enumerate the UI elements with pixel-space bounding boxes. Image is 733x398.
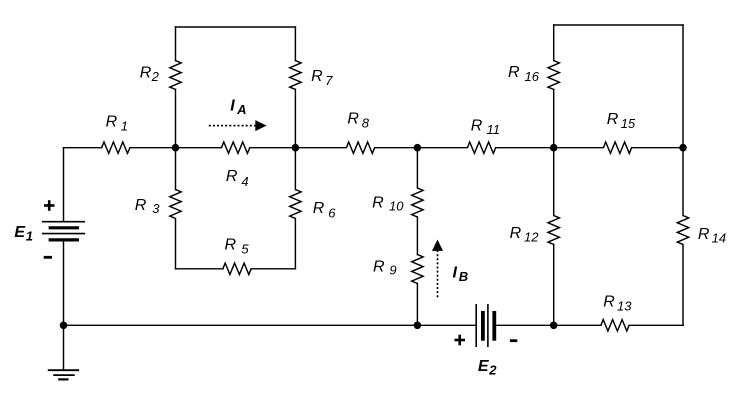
wire R12 to bottom node — [553, 244, 555, 325]
resistor R3 — [170, 190, 181, 219]
label R13 — [603, 294, 632, 314]
svg-text:1: 1 — [26, 229, 33, 244]
svg-text:R: R — [313, 200, 325, 217]
wire R6 to sub-loop corner — [294, 218, 296, 268]
wire sub-loop bottom right (R5 to corner) — [251, 268, 295, 270]
svg-text:R: R — [225, 237, 237, 254]
wire main bus segment (R11 to node D) — [496, 147, 554, 149]
svg-text:E: E — [478, 358, 490, 375]
svg-text:R: R — [510, 225, 522, 242]
label R2 — [140, 65, 160, 84]
resistor R12 — [548, 216, 559, 245]
wire main bus segment (left rail to R1) — [64, 147, 102, 149]
wire bottom bus (node F to E2 + plate) — [417, 324, 475, 326]
svg-text:8: 8 — [362, 116, 370, 131]
resistor R9 — [412, 255, 423, 284]
svg-text:I: I — [230, 98, 235, 115]
wire bottom bus (R13 to bottom right corner) — [629, 324, 683, 326]
svg-text:10: 10 — [389, 199, 404, 214]
resistor R16 — [548, 61, 559, 90]
wire top-left loop horizontal — [176, 26, 296, 28]
ground node junction — [60, 322, 68, 330]
wire bottom bus (ground node to node F) — [64, 324, 418, 326]
svg-text:14: 14 — [712, 230, 726, 245]
label R1 — [106, 113, 128, 133]
label R15 — [607, 111, 636, 131]
node E junction (right rail / R15) — [679, 144, 687, 152]
svg-text:R: R — [471, 118, 483, 135]
svg-text:I: I — [453, 265, 458, 282]
wire sub-loop bottom left (to R5) — [176, 268, 223, 270]
svg-text:6: 6 — [328, 206, 336, 221]
wire node D down to R12 — [553, 148, 555, 216]
node G junction (E2 / R12 / R13) — [550, 322, 558, 330]
svg-text:R: R — [135, 197, 147, 214]
wire main bus segment (R1 to node A) — [130, 147, 176, 149]
wire main bus segment (R4 to node B) — [250, 147, 296, 149]
label E1 — [14, 224, 33, 243]
label R7 — [311, 68, 333, 88]
label R6 — [313, 200, 336, 221]
resistor R14 — [677, 216, 688, 245]
wire bottom bus (E2 - plate to node G) — [497, 324, 554, 326]
wire R2 to node A — [175, 89, 177, 147]
svg-text:12: 12 — [524, 229, 539, 244]
svg-text:3: 3 — [152, 201, 160, 216]
svg-text:B: B — [459, 269, 468, 284]
wire main bus segment (R8 to node C) — [375, 147, 418, 149]
wire R14 to bottom right corner — [682, 244, 684, 325]
label E2 — [478, 358, 497, 377]
wire R9 to bottom node — [416, 283, 418, 325]
svg-text:R: R — [508, 64, 520, 81]
svg-text:7: 7 — [325, 73, 333, 88]
svg-text:11: 11 — [487, 122, 501, 137]
svg-text:R: R — [226, 168, 238, 185]
resistor R10 — [412, 188, 423, 217]
wire node E down to R14 — [682, 148, 684, 216]
current arrow IB — [432, 240, 443, 298]
resistor R8 — [346, 142, 374, 153]
wire R7 to node B — [294, 89, 296, 147]
wire top-right loop horizontal — [554, 24, 683, 26]
resistor R11 — [467, 142, 495, 153]
wire main bus segment (R15 to right rail) — [632, 147, 683, 149]
plus sign E2 — [455, 335, 466, 346]
svg-text:2: 2 — [488, 362, 497, 377]
svg-text:R: R — [311, 68, 323, 85]
svg-text:E: E — [14, 224, 26, 241]
svg-text:R: R — [347, 111, 359, 128]
svg-text:13: 13 — [617, 298, 632, 313]
wire R3 to sub-loop corner — [175, 218, 177, 268]
label IA — [230, 98, 246, 118]
ground — [48, 370, 79, 379]
resistor R5 — [223, 263, 251, 274]
plus sign E1 — [44, 200, 55, 211]
label R9 — [373, 258, 397, 277]
wire main bus segment (node C to R11) — [417, 147, 467, 149]
node C junction — [414, 144, 422, 152]
wire node A down to R3 — [175, 148, 177, 190]
minus sign E2 — [510, 339, 517, 342]
resistor R6 — [290, 190, 301, 219]
svg-text:A: A — [236, 102, 246, 117]
wire left rail lower (E1 - plate to bottom node) — [63, 240, 65, 325]
resistor R13 — [601, 320, 629, 331]
wire R10 to R9 — [416, 217, 418, 255]
wire left rail upper (to E1 + plate) — [63, 148, 65, 222]
resistor R1 — [102, 142, 130, 153]
label R16 — [508, 64, 540, 84]
svg-text:R: R — [106, 113, 118, 130]
svg-text:9: 9 — [389, 263, 396, 278]
wire node C down to R10 — [416, 148, 418, 188]
wire node A branch up (to R2) — [175, 27, 177, 61]
wire node B down to R6 — [294, 148, 296, 190]
wire main bus segment (node A to R4) — [176, 147, 222, 149]
svg-text:4: 4 — [241, 174, 248, 189]
svg-text:16: 16 — [525, 69, 540, 84]
resistor R15 — [603, 142, 631, 153]
label R4 — [226, 168, 249, 189]
label R3 — [135, 197, 161, 216]
label R5 — [225, 237, 250, 257]
resistor R2 — [170, 61, 181, 90]
wire R16 to node D — [553, 89, 555, 147]
svg-text:R: R — [698, 226, 710, 243]
svg-text:5: 5 — [241, 242, 249, 257]
svg-text:1: 1 — [121, 119, 128, 134]
wire main bus segment (node B to R8) — [295, 147, 346, 149]
node B junction — [292, 144, 300, 152]
resistor R7 — [290, 61, 301, 90]
resistor R4 — [221, 142, 249, 153]
current arrow IA — [209, 120, 267, 131]
node D junction — [550, 144, 558, 152]
label R14 — [698, 226, 726, 245]
label R10 — [372, 194, 404, 213]
wire main bus segment (node D to R15) — [554, 147, 604, 149]
minus sign E1 — [44, 256, 52, 259]
svg-text:2: 2 — [151, 69, 160, 84]
svg-text:15: 15 — [621, 116, 636, 131]
svg-text:R: R — [607, 111, 619, 128]
label R12 — [510, 225, 540, 244]
svg-text:R: R — [372, 194, 384, 211]
wire right rail upper (to node E) — [682, 25, 684, 148]
svg-text:R: R — [140, 65, 152, 82]
battery E2 — [476, 304, 494, 347]
node F junction (R9 / bottom bus) — [414, 322, 422, 330]
wire top-left loop right (to R7) — [294, 27, 296, 61]
wire node D branch up (to R16) — [553, 25, 555, 61]
label IB — [453, 265, 469, 284]
svg-text:R: R — [603, 294, 615, 311]
battery E1 — [42, 222, 85, 240]
node A junction — [172, 144, 180, 152]
svg-text:R: R — [373, 258, 385, 275]
label R11 — [471, 118, 500, 137]
label R8 — [347, 111, 369, 131]
wire ground stem — [63, 325, 65, 370]
wire bottom bus (node G to R13) — [554, 324, 601, 326]
